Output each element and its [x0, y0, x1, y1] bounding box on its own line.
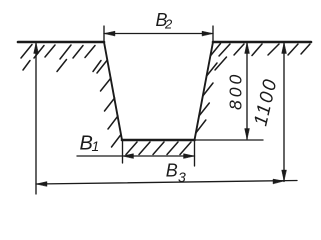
hatching right slope ticks	[196, 44, 221, 134]
dimension B1 extension line left	[122, 141, 124, 163]
dimension B2 line	[104, 33, 213, 35]
hatching below trench bottom	[126, 142, 191, 155]
trench bottom extension line to right	[195, 139, 264, 141]
overall width left extension/dimension line	[35, 43, 37, 194]
svg-text:1: 1	[92, 138, 100, 154]
dimension B1 arrow left	[123, 154, 134, 159]
dimension B2 arrow right	[202, 31, 213, 36]
dimension B1 line with leader to label	[77, 155, 195, 157]
dimension B3 arrow left	[36, 182, 47, 187]
dimension 1100 arrow down	[282, 170, 287, 181]
dimension B2 extension line left	[103, 26, 105, 41]
hatching left slope ticks	[97, 60, 121, 147]
hatching left bank row2	[23, 60, 101, 72]
svg-text:800: 800	[226, 72, 246, 110]
dimension 800 arrow down	[245, 129, 250, 140]
dimension B3 bottom line	[36, 181, 297, 185]
ground line right segment	[213, 41, 311, 44]
trench left slope	[104, 42, 122, 140]
hatching left bank row1	[21, 45, 95, 60]
svg-text:2: 2	[164, 17, 173, 32]
label B3	[166, 161, 186, 186]
dimension 1100 line	[283, 43, 285, 182]
dimension 800 line	[246, 43, 248, 139]
dimension B3 arrow right	[273, 179, 284, 184]
ground line left segment	[18, 41, 104, 44]
label B2	[156, 10, 174, 31]
dimension B1 arrow right	[184, 154, 195, 159]
dimension B2 extension line right	[212, 26, 214, 41]
hatching right bank row1	[219, 44, 310, 56]
svg-text:3: 3	[178, 169, 186, 185]
trench bottom line	[122, 139, 195, 142]
overall width left up arrow	[34, 43, 39, 54]
svg-text:B: B	[166, 161, 178, 181]
label B1	[80, 132, 100, 154]
dimension 800 arrow up	[245, 43, 250, 54]
dimension B2 arrow left	[104, 31, 115, 36]
trench right slope	[195, 42, 214, 140]
dimension 1100 arrow up	[282, 43, 287, 54]
dimension B1 extension line right	[194, 141, 196, 166]
hatching right bank row2	[215, 57, 227, 70]
svg-text:1100: 1100	[250, 76, 281, 128]
